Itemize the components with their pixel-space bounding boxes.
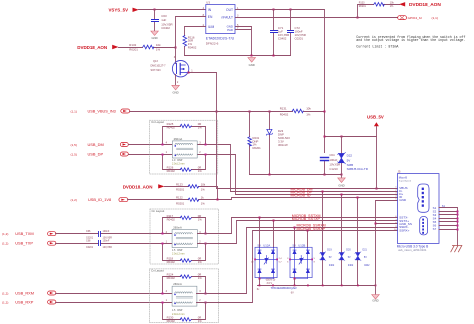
svg-text:C0201: C0201 bbox=[295, 37, 304, 41]
svg-text:R0402: R0402 bbox=[280, 113, 289, 117]
wire SSTXP bbox=[198, 221, 398, 244]
svg-text:USB_DP: USB_DP bbox=[88, 151, 104, 156]
svg-text:GND: GND bbox=[249, 63, 255, 67]
svg-text:R0402: R0402 bbox=[167, 126, 176, 130]
resistor R126 bbox=[163, 155, 206, 170]
svg-text:D22: D22 bbox=[347, 153, 353, 157]
svg-text:DVDD18_AON: DVDD18_AON bbox=[123, 185, 153, 190]
svg-text:300mW: 300mW bbox=[278, 143, 288, 147]
resistor R133 bbox=[358, 5, 400, 18]
svg-text:TPD4E02B04DQAR: TPD4E02B04DQAR bbox=[271, 286, 297, 290]
capacitor C63 bbox=[154, 10, 156, 32]
capacitor C72 bbox=[290, 10, 292, 56]
svg-text:260mA: 260mA bbox=[173, 226, 182, 230]
ground bbox=[341, 175, 343, 178]
capacitor C71 bbox=[273, 10, 275, 56]
svg-text:R131: R131 bbox=[280, 106, 287, 110]
diode D19 bbox=[322, 192, 324, 286]
capacitor C66 bbox=[56, 233, 173, 235]
svg-text:(1,2): (1,2) bbox=[2, 301, 8, 305]
wire USB_DP into choke bbox=[129, 155, 398, 195]
svg-text:10V,X5R: 10V,X5R bbox=[329, 163, 340, 167]
common mode choke 3 bbox=[166, 282, 202, 316]
TOP POWER SECTION bbox=[77, 1, 465, 190]
svg-text:(1,5): (1,5) bbox=[71, 143, 77, 147]
svg-text:Cn Layout: Cn Layout bbox=[151, 120, 164, 124]
svg-text:C66: C66 bbox=[86, 230, 91, 233]
svg-text:0402: 0402 bbox=[329, 264, 335, 267]
svg-text:1%: 1% bbox=[198, 319, 203, 323]
diode D22 TVS bbox=[341, 137, 343, 175]
wire USB_RXM bbox=[56, 293, 173, 295]
svg-text:VSYS_5V: VSYS_5V bbox=[109, 8, 129, 13]
svg-text:1%: 1% bbox=[198, 260, 203, 264]
svg-text:1.5 DNP: 1.5 DNP bbox=[172, 309, 183, 312]
svg-text:R122: R122 bbox=[176, 196, 183, 200]
svg-text:10k: 10k bbox=[306, 106, 311, 110]
svg-text:DVDD18_AON: DVDD18_AON bbox=[77, 45, 107, 50]
svg-text:1%: 1% bbox=[156, 48, 161, 52]
Cn Layout box 1 bbox=[150, 120, 218, 174]
svg-text:OUT: OUT bbox=[226, 8, 233, 12]
svg-text:R0201: R0201 bbox=[359, 5, 367, 8]
resistor R122 bbox=[128, 198, 398, 200]
svg-text:0402: 0402 bbox=[364, 264, 370, 267]
svg-text:R0201: R0201 bbox=[253, 146, 262, 150]
svg-text:1%: 1% bbox=[201, 201, 206, 205]
wire GND rail bbox=[185, 55, 291, 57]
svg-text:ETA6020D2G-T/U: ETA6020D2G-T/U bbox=[206, 37, 235, 41]
svg-text:J5: J5 bbox=[398, 170, 401, 174]
svg-text:(1,1): (1,1) bbox=[432, 16, 438, 20]
svg-text:R0402: R0402 bbox=[167, 217, 176, 221]
resistor R124 bbox=[163, 277, 206, 294]
wire lower gnd rail bbox=[250, 174, 342, 176]
resistor R131 bbox=[292, 109, 303, 113]
svg-text:R0402: R0402 bbox=[167, 169, 176, 173]
svg-text:D20: D20 bbox=[346, 249, 351, 252]
svg-text:2.0x1.2 mm: 2.0x1.2 mm bbox=[172, 253, 185, 256]
svg-text:R0402: R0402 bbox=[167, 260, 176, 264]
svg-text:260mA: 260mA bbox=[174, 137, 183, 141]
svg-text:MICROB_SSTXP: MICROB_SSTXP bbox=[292, 217, 321, 221]
BOTTOM SECTION bbox=[2, 170, 462, 323]
transistor Q13 bbox=[172, 60, 188, 76]
shield pins S1-S7 bbox=[433, 206, 437, 231]
svg-text:R132: R132 bbox=[129, 43, 136, 47]
svg-text:C0402: C0402 bbox=[278, 37, 287, 41]
svg-text:Current Limit : 873mA: Current Limit : 873mA bbox=[356, 45, 398, 50]
Cn Layout box 2 bbox=[150, 209, 219, 264]
capacitor C64 100uF bbox=[324, 161, 326, 175]
wire EN to gate net bbox=[176, 17, 206, 64]
common mode choke 1 bbox=[166, 137, 202, 166]
svg-text:1%: 1% bbox=[198, 126, 203, 130]
wire SSRXP bbox=[197, 231, 398, 303]
wire SSTXM bbox=[198, 218, 398, 234]
wire TVS ground rail bbox=[258, 285, 376, 287]
capacitor C68 bbox=[56, 243, 173, 245]
common mode choke 2 bbox=[166, 226, 202, 256]
svg-text:C0201: C0201 bbox=[86, 246, 94, 249]
svg-text:D19: D19 bbox=[327, 249, 332, 252]
svg-text:Cn Layout: Cn Layout bbox=[152, 209, 165, 213]
wire ILIM to R116 bbox=[185, 27, 206, 56]
wire Q13 source to ground bbox=[175, 75, 177, 86]
wire Q13 drain to VBUS line bbox=[189, 73, 398, 189]
svg-text:(1,2): (1,2) bbox=[71, 198, 77, 202]
MIDDLE SECTION bbox=[71, 106, 398, 205]
svg-text:and the output voltage is high: and the output voltage is higher than th… bbox=[356, 38, 465, 43]
svg-text:R0402: R0402 bbox=[167, 319, 176, 323]
svg-text:SSRX+: SSRX+ bbox=[399, 228, 409, 232]
svg-text:DVDD18_AON: DVDD18_AON bbox=[409, 2, 441, 8]
wire USB_VBUS_IN3 net bbox=[130, 111, 325, 113]
wire USB_DM into choke bbox=[129, 145, 398, 192]
svg-text:6V: 6V bbox=[291, 292, 294, 295]
svg-text:5V: 5V bbox=[347, 158, 351, 162]
svg-text:SMB: SMB bbox=[347, 163, 354, 167]
resistor R231 bbox=[249, 112, 251, 175]
svg-text:3.6 V: 3.6 V bbox=[267, 282, 273, 285]
svg-text:R0402: R0402 bbox=[167, 276, 176, 280]
svg-text:nFAULT: nFAULT bbox=[222, 15, 234, 19]
svg-text:GND: GND bbox=[399, 198, 407, 202]
resistor R123 bbox=[165, 187, 218, 200]
wire GND PAD stubs bbox=[236, 27, 252, 56]
svg-text:C64: C64 bbox=[329, 153, 335, 157]
svg-text:1%: 1% bbox=[198, 217, 203, 221]
diode D23 zener DNP bbox=[269, 112, 271, 175]
svg-text:C0402: C0402 bbox=[161, 26, 170, 30]
svg-text:C1210: C1210 bbox=[329, 167, 338, 171]
svg-text:DMG1012T-7: DMG1012T-7 bbox=[151, 65, 167, 68]
Cn Layout box 3 bbox=[149, 269, 218, 323]
wire droppers to TVS bbox=[260, 218, 274, 248]
svg-text:2.0x1.2 mm: 2.0x1.2 mm bbox=[172, 163, 185, 166]
svg-text:10k: 10k bbox=[201, 182, 206, 186]
ground bbox=[151, 31, 159, 35]
svg-text:100uF: 100uF bbox=[329, 158, 337, 162]
wire nFAULT net bbox=[236, 17, 398, 19]
svg-text:DFN22-6: DFN22-6 bbox=[206, 42, 219, 46]
svg-text:0402: 0402 bbox=[348, 264, 354, 267]
svg-text:MICROB_SSRXP: MICROB_SSRXP bbox=[297, 227, 326, 231]
svg-text:usb_micon_ub50-0101: usb_micon_ub50-0101 bbox=[398, 248, 427, 252]
svg-text:(1,5): (1,5) bbox=[71, 152, 77, 156]
svg-text:(1,1): (1,1) bbox=[71, 109, 77, 113]
svg-text:C68: C68 bbox=[86, 240, 91, 243]
svg-text:GND: GND bbox=[338, 183, 344, 187]
svg-text:5V: 5V bbox=[329, 256, 332, 259]
resistor R117 bbox=[163, 218, 206, 234]
svg-text:USB_DM: USB_DM bbox=[88, 142, 104, 147]
svg-text:260mA: 260mA bbox=[173, 282, 182, 286]
svg-text:GND: GND bbox=[172, 91, 178, 95]
diode D20 bbox=[341, 195, 343, 286]
resistor R130 bbox=[163, 303, 206, 320]
wire SSRXM bbox=[197, 228, 398, 294]
svg-text:ILIM: ILIM bbox=[208, 25, 215, 29]
svg-text:EN: EN bbox=[208, 15, 213, 19]
svg-text:R0201: R0201 bbox=[176, 188, 185, 192]
svg-text:R123: R123 bbox=[176, 182, 183, 186]
port GPIO4_IU bbox=[398, 16, 407, 20]
svg-text:1%: 1% bbox=[306, 113, 311, 117]
svg-text:10V,X5R: 10V,X5R bbox=[103, 246, 113, 249]
ground bbox=[372, 295, 380, 300]
wire VSYS_5V to U3 IN bbox=[139, 9, 206, 11]
wire U3 OUT net bbox=[236, 10, 325, 153]
svg-text:R0201: R0201 bbox=[129, 48, 138, 52]
resistor R125 bbox=[163, 127, 206, 145]
svg-text:5V U12A: 5V U12A bbox=[258, 243, 271, 247]
svg-text:5V U12B: 5V U12B bbox=[293, 243, 306, 247]
svg-text:1%: 1% bbox=[198, 276, 203, 280]
svg-text:USB_RXP: USB_RXP bbox=[15, 300, 34, 305]
resistor R132 bbox=[143, 45, 154, 49]
svg-text:USB_ID_1V8: USB_ID_1V8 bbox=[88, 197, 111, 202]
connector face drawing bbox=[418, 184, 429, 212]
svg-text:USB_RXM: USB_RXM bbox=[15, 291, 34, 296]
diode D21 bbox=[357, 198, 359, 286]
wire USB_5V net bbox=[325, 137, 377, 189]
svg-text:1%: 1% bbox=[201, 188, 206, 192]
svg-text:GND: GND bbox=[372, 298, 378, 302]
svg-text:2.0x1.2 mm: 2.0x1.2 mm bbox=[172, 313, 185, 316]
svg-text:Q13: Q13 bbox=[153, 60, 158, 63]
svg-text:USB_TXM: USB_TXM bbox=[15, 231, 33, 236]
resistor R118 bbox=[163, 244, 206, 261]
chassis ground bbox=[451, 246, 462, 252]
svg-text:D21: D21 bbox=[363, 249, 368, 252]
ground bbox=[172, 85, 180, 90]
ground bbox=[248, 58, 256, 63]
svg-text:SuperSpeed: SuperSpeed bbox=[399, 180, 412, 183]
svg-text:5V: 5V bbox=[348, 256, 351, 259]
resistor R116 bbox=[183, 36, 187, 47]
wire connector GND net bbox=[376, 201, 398, 295]
svg-text:1%: 1% bbox=[198, 169, 203, 173]
svg-text:100nF: 100nF bbox=[103, 240, 110, 243]
svg-text:1uF: 1uF bbox=[161, 18, 166, 22]
power flag DVDD18_AON right bbox=[399, 2, 405, 6]
svg-text:100nF: 100nF bbox=[103, 230, 110, 233]
svg-text:(1,2): (1,2) bbox=[2, 232, 8, 236]
svg-text:GND: GND bbox=[151, 36, 157, 40]
svg-text:Micro-B: Micro-B bbox=[399, 176, 408, 179]
svg-text:PAD: PAD bbox=[227, 28, 233, 32]
svg-text:10k: 10k bbox=[156, 43, 161, 47]
svg-text:S7: S7 bbox=[433, 227, 437, 231]
svg-text:5V: 5V bbox=[364, 256, 367, 259]
svg-text:SMBJ5.0CA-TR: SMBJ5.0CA-TR bbox=[347, 167, 369, 171]
svg-text:Cn Layout: Cn Layout bbox=[151, 269, 164, 273]
svg-text:R0201: R0201 bbox=[176, 201, 185, 205]
wire bbox=[119, 47, 176, 49]
svg-text:(1,2): (1,2) bbox=[2, 242, 8, 246]
wire USB_RXP bbox=[56, 302, 173, 304]
svg-text:GPIO4_IU: GPIO4_IU bbox=[408, 16, 422, 20]
svg-text:(1,2): (1,2) bbox=[2, 292, 8, 296]
svg-text:R0402: R0402 bbox=[188, 45, 197, 49]
svg-text:USB_TXP: USB_TXP bbox=[15, 241, 33, 246]
svg-text:MICROB_ID: MICROB_ID bbox=[291, 194, 311, 198]
svg-text:USB_5V: USB_5V bbox=[367, 115, 384, 120]
svg-text:USB_VBUS_IN3: USB_VBUS_IN3 bbox=[88, 109, 116, 113]
svg-text:SOT-523: SOT-523 bbox=[151, 69, 162, 72]
